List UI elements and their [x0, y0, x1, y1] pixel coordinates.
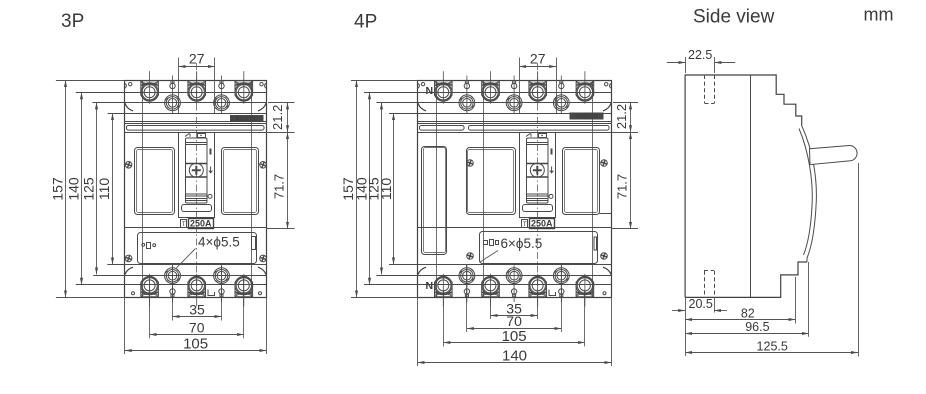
3P edge notches — [125, 83, 266, 88]
3P top mounting hole left — [165, 92, 181, 113]
3P top terminal 3 — [235, 71, 253, 104]
3P cover mold line left — [142, 80, 144, 297]
svg-text:NICETIC: NICETIC — [236, 117, 258, 123]
3P dim 35 — [173, 302, 222, 318]
svg-text:N: N — [426, 280, 434, 292]
3P handle screw — [189, 163, 203, 177]
4P cover mold line left — [483, 80, 485, 297]
3P handle frame — [186, 138, 208, 203]
4P rating plate 250A — [530, 219, 555, 229]
3P brand label — [230, 115, 264, 123]
svg-text:22.5: 22.5 — [688, 48, 712, 62]
4P right pole panel — [563, 148, 600, 215]
svg-text:21.2: 21.2 — [270, 105, 285, 130]
4P bottom terminal 3 — [529, 274, 547, 307]
4P dim 157 — [340, 80, 356, 297]
side body outline — [685, 75, 802, 297]
svg-text:70: 70 — [189, 319, 205, 335]
3P rating plate 250A — [189, 219, 214, 229]
4P dim 125 — [366, 102, 382, 274]
3P bottom edge extension — [56, 297, 125, 299]
4P dim 35 — [491, 300, 538, 316]
svg-text:6×ϕ5.5: 6×ϕ5.5 — [501, 236, 543, 251]
4P top terminal 2 — [482, 71, 500, 104]
side dim 22.5 — [667, 48, 735, 73]
4P body outline — [418, 81, 612, 298]
4P cover mold line right — [592, 80, 594, 297]
svg-text:250A: 250A — [190, 219, 212, 229]
4P dim 70 — [467, 313, 561, 329]
3P right pole panel — [222, 148, 259, 215]
3P front vent band — [127, 126, 265, 131]
3P dim 125 — [81, 102, 97, 274]
3P body line y102 — [92, 102, 266, 104]
3P ON mark — [210, 149, 212, 155]
svg-text:70: 70 — [506, 313, 522, 329]
3P cover mold line right — [251, 80, 253, 297]
4P body line y113 — [389, 113, 612, 115]
4P dim 21.2 — [614, 102, 631, 132]
4P top edge extension — [351, 80, 417, 82]
4P dim 27 — [519, 51, 556, 67]
3P body line y275 — [93, 275, 266, 277]
4P body line y275 — [377, 275, 612, 277]
3P dim 110 — [96, 113, 112, 264]
3P top edge extension — [56, 80, 125, 82]
4P dim 140 — [417, 347, 611, 364]
side dim 125.5 — [685, 163, 858, 356]
3P dim 71.7 — [271, 132, 287, 229]
3P bottom mounting hole left — [165, 265, 181, 286]
3P top terminal 2 — [188, 71, 206, 104]
4P pole separator right (27 ext) — [556, 58, 558, 114]
3P corner fillet hooks — [125, 103, 266, 274]
3P trip mark arrow — [209, 167, 213, 173]
3P bottom ext outer terminals — [149, 277, 151, 338]
side hidden hole top — [705, 75, 715, 104]
3P off mark — [208, 194, 212, 198]
4P accessory cover — [480, 232, 598, 264]
4P body line y227 — [417, 227, 611, 229]
3P handle escutcheon — [179, 133, 215, 218]
4P bottom terminal 4 — [576, 274, 594, 307]
3P panel screw top-right — [259, 161, 267, 169]
3P dim 157 — [50, 80, 66, 297]
3P bottom ext small screws — [172, 265, 174, 321]
4P N pole panel — [422, 147, 447, 255]
svg-text:71.7: 71.7 — [271, 174, 286, 199]
3P rating T box — [181, 220, 187, 229]
svg-text:4×ϕ5.5: 4×ϕ5.5 — [198, 234, 240, 249]
3P body line y113 — [108, 113, 267, 115]
3P body line y264 — [107, 264, 266, 266]
4P dim 140 — [353, 92, 369, 284]
3P body line y284 — [76, 284, 267, 286]
4P panel bottom stub — [600, 213, 612, 215]
4P bottom ext mounts 1-3 — [466, 265, 468, 332]
4P rating T box — [522, 220, 528, 229]
4P vent band N segment — [420, 126, 465, 131]
4P body line y264 — [389, 264, 612, 266]
3P bottom terminal 3 — [235, 274, 253, 307]
3P body line y227 — [125, 227, 267, 229]
4P center line vertical — [537, 63, 539, 298]
3P top terminal 1 — [141, 71, 159, 104]
side dim 96.5 — [685, 262, 809, 337]
3P panel screw bottom-left — [124, 254, 132, 262]
4P top terminal N — [435, 71, 453, 104]
4P bottom terminal 2 — [482, 274, 500, 307]
4P right ext lines — [613, 102, 638, 104]
3P mounting note leader — [176, 249, 195, 269]
4P body line y102 — [377, 102, 612, 104]
4P bottom terminal N — [435, 274, 453, 307]
4P dim 105 — [443, 328, 585, 345]
svg-text:82: 82 — [741, 307, 755, 321]
svg-text:110: 110 — [378, 178, 394, 201]
4P bottom ext body sides — [417, 297, 419, 366]
3P label window — [182, 205, 212, 212]
side dome outer arc — [802, 126, 817, 262]
3P dim 27 — [179, 51, 215, 67]
4P panel screws — [466, 159, 474, 167]
3P cover icon circle a — [142, 243, 145, 246]
4P bottom edge extension — [351, 297, 417, 299]
3P panel screw bottom-right — [259, 254, 267, 262]
svg-text:140: 140 — [66, 177, 82, 201]
3P dim 140 — [66, 92, 82, 284]
svg-text:140: 140 — [502, 347, 527, 364]
4P pole separator left (27 ext) — [519, 58, 521, 114]
3P right ext line mid — [266, 132, 294, 134]
svg-text:N: N — [426, 85, 434, 97]
svg-text:3P: 3P — [61, 11, 84, 32]
4P cover mold line N — [436, 80, 438, 297]
4P off mark — [549, 194, 553, 198]
3P bottom keyhole right — [219, 284, 224, 303]
svg-text:mm: mm — [864, 5, 894, 25]
3P top keyhole screw right — [219, 76, 224, 95]
3P bottom clip mark — [208, 290, 215, 296]
svg-text:71.7: 71.7 — [614, 174, 629, 199]
3P bottom keyhole left — [170, 284, 175, 303]
3P bottom corner hole left — [132, 292, 135, 295]
3P body outline — [125, 81, 267, 298]
3P top corner hole right — [260, 83, 263, 86]
4P top corner hole right — [605, 83, 608, 86]
3P bottom terminal 1 — [141, 274, 159, 307]
4P handle frame — [527, 138, 549, 203]
svg-text:35: 35 — [189, 302, 205, 318]
4P cover icons — [484, 241, 488, 245]
3P bottom corner hole right — [259, 292, 262, 295]
3P cover icon rect — [147, 243, 151, 249]
svg-text:T: T — [182, 221, 186, 228]
4P top mounting holes — [459, 92, 475, 113]
side inner face line — [750, 75, 752, 297]
svg-text:4P: 4P — [354, 12, 377, 33]
svg-text:125.5: 125.5 — [757, 340, 788, 354]
3P cover seam lines — [125, 121, 267, 123]
svg-text:T: T — [523, 221, 527, 228]
4P top terminal 3 — [529, 71, 547, 104]
3P bottom mounting hole right — [214, 265, 230, 286]
4P bottom ext terminals 1-4 — [443, 290, 445, 346]
4P body line y132 — [417, 132, 611, 134]
svg-text:27: 27 — [530, 51, 546, 67]
3P pole separator right (27 dim extension) — [214, 58, 216, 114]
3P right ext line top — [268, 102, 295, 104]
svg-text:20.5: 20.5 — [689, 297, 713, 311]
svg-text:27: 27 — [189, 51, 205, 67]
svg-text:250A: 250A — [531, 219, 553, 229]
side dim 20.5 — [672, 297, 727, 356]
4P label window — [523, 205, 553, 212]
4P bottom keyholes — [464, 284, 469, 303]
3P body line y92 — [76, 92, 267, 94]
svg-text:110: 110 — [96, 178, 112, 201]
4P dim 110 — [378, 113, 394, 264]
4P mounting note leader — [480, 251, 498, 263]
3P right ext line bottom — [266, 228, 294, 230]
4P handle escutcheon — [520, 133, 556, 218]
4P edge notches — [418, 83, 611, 88]
4P cover seam lines — [418, 121, 612, 123]
3P body line y132 — [125, 132, 267, 134]
4P body line y284 — [364, 284, 612, 286]
svg-text:105: 105 — [183, 335, 208, 352]
svg-text:125: 125 — [81, 177, 97, 201]
4P top corner hole left — [421, 83, 424, 86]
4P body line y92 — [364, 92, 612, 94]
3P center line vertical — [196, 63, 198, 298]
side handle bar — [810, 145, 858, 164]
svg-text:NICETIC: NICETIC — [575, 114, 597, 120]
3P top mounting hole right — [214, 92, 230, 113]
4P top keyholes — [464, 76, 469, 95]
4P trip mark arrow — [550, 167, 554, 173]
4P handle screw — [530, 163, 544, 177]
3P bottom ext body sides — [124, 297, 126, 354]
svg-text:21.2: 21.2 — [614, 104, 629, 129]
3P dim 70 — [150, 319, 244, 335]
svg-text:96.5: 96.5 — [745, 320, 769, 334]
3P top corner hole left — [129, 83, 132, 86]
3P panel screw top-left — [124, 161, 132, 169]
svg-text:Side view: Side view — [693, 7, 775, 28]
4P left pole panel — [467, 148, 516, 215]
3P left pole panel — [135, 148, 175, 215]
side dim 82 — [685, 277, 795, 324]
4P ON mark — [551, 149, 553, 155]
3P cover icon circle b — [153, 244, 156, 247]
3P top keyhole screw left — [170, 76, 175, 95]
4P corner fillet hooks — [418, 103, 611, 274]
svg-text:105: 105 — [502, 328, 527, 345]
4P bottom mounting holes — [459, 265, 475, 286]
4P brand label — [570, 113, 604, 121]
4P bottom clip mark — [549, 290, 556, 296]
4P vent band main segment — [469, 126, 610, 131]
3P accessory cover — [138, 233, 257, 264]
4P bottom ext terminals 2-3 — [490, 290, 492, 319]
side hidden hole bottom — [704, 271, 714, 298]
3P bottom terminal 2 — [188, 274, 206, 307]
3P dim 105 — [125, 335, 267, 352]
3P dim 21.2 — [270, 102, 287, 132]
4P top terminal 4 — [576, 71, 594, 104]
svg-text:157: 157 — [50, 177, 66, 201]
3P pole separator left (27 dim extension) — [178, 58, 180, 114]
side dome inner arc — [799, 129, 812, 256]
4P dim 71.7 — [614, 132, 630, 229]
4P bottom corner hole right — [603, 292, 606, 295]
